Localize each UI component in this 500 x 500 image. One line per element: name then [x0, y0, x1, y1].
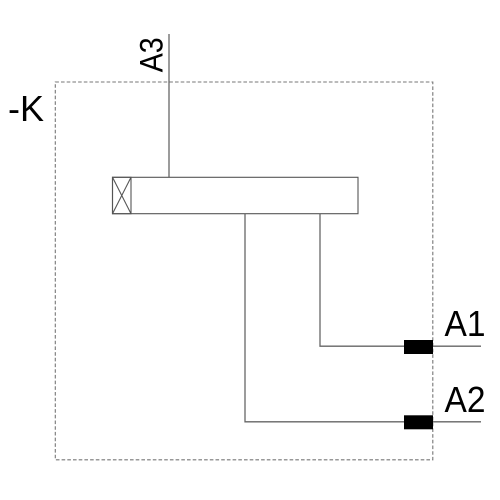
svg-text:A2: A2 — [445, 379, 486, 420]
terminal A1 (black clamp box) — [404, 340, 433, 354]
svg-text:A1: A1 — [445, 303, 486, 344]
coil drive element X-box — [113, 177, 132, 213]
svg-text:A3: A3 — [134, 37, 170, 72]
wire coil to A1 (vertical then horizontal) — [320, 214, 481, 347]
wire A3 (vertical lead to coil top) — [168, 34, 170, 177]
coil K (rectangle body) — [113, 177, 359, 213]
dashed enclosure outline of relay -K — [55, 82, 433, 460]
svg-text:-K: -K — [8, 88, 44, 129]
wire coil to A2 (vertical then horizontal) — [245, 214, 481, 422]
terminal A2 (black clamp box) — [404, 415, 433, 429]
